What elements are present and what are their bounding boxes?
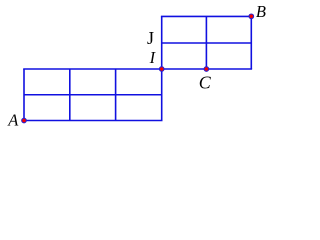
lower rectangle grid <box>23 16 252 120</box>
node I point <box>159 67 164 72</box>
node B point <box>249 14 254 19</box>
svg-text:B: B <box>256 2 266 21</box>
wire: lower rect right edge <box>161 69 163 121</box>
svg-text:I: I <box>149 48 157 67</box>
wire: lower rect middle row <box>24 94 162 96</box>
wire: lower rect bottom edge <box>23 120 162 122</box>
wire: upper rect bottom edge <box>162 68 252 70</box>
wire: lower rect top edge <box>23 68 162 70</box>
wire: upper rect top edge <box>161 15 252 17</box>
svg-text:J: J <box>147 28 154 48</box>
wire: upper rect left edge <box>161 16 163 69</box>
svg-text:A: A <box>7 110 19 129</box>
wire: upper rect right edge <box>250 16 252 69</box>
svg-text:C: C <box>199 72 212 92</box>
node C point <box>204 67 209 72</box>
wire: upper rect column line <box>205 16 207 69</box>
wire: upper rect middle row <box>162 42 252 44</box>
node A point <box>22 118 27 123</box>
wire: lower rect column line 2 <box>115 69 117 121</box>
wire: lower rect column line 1 <box>69 69 71 121</box>
wire: lower rect left edge <box>23 69 25 121</box>
